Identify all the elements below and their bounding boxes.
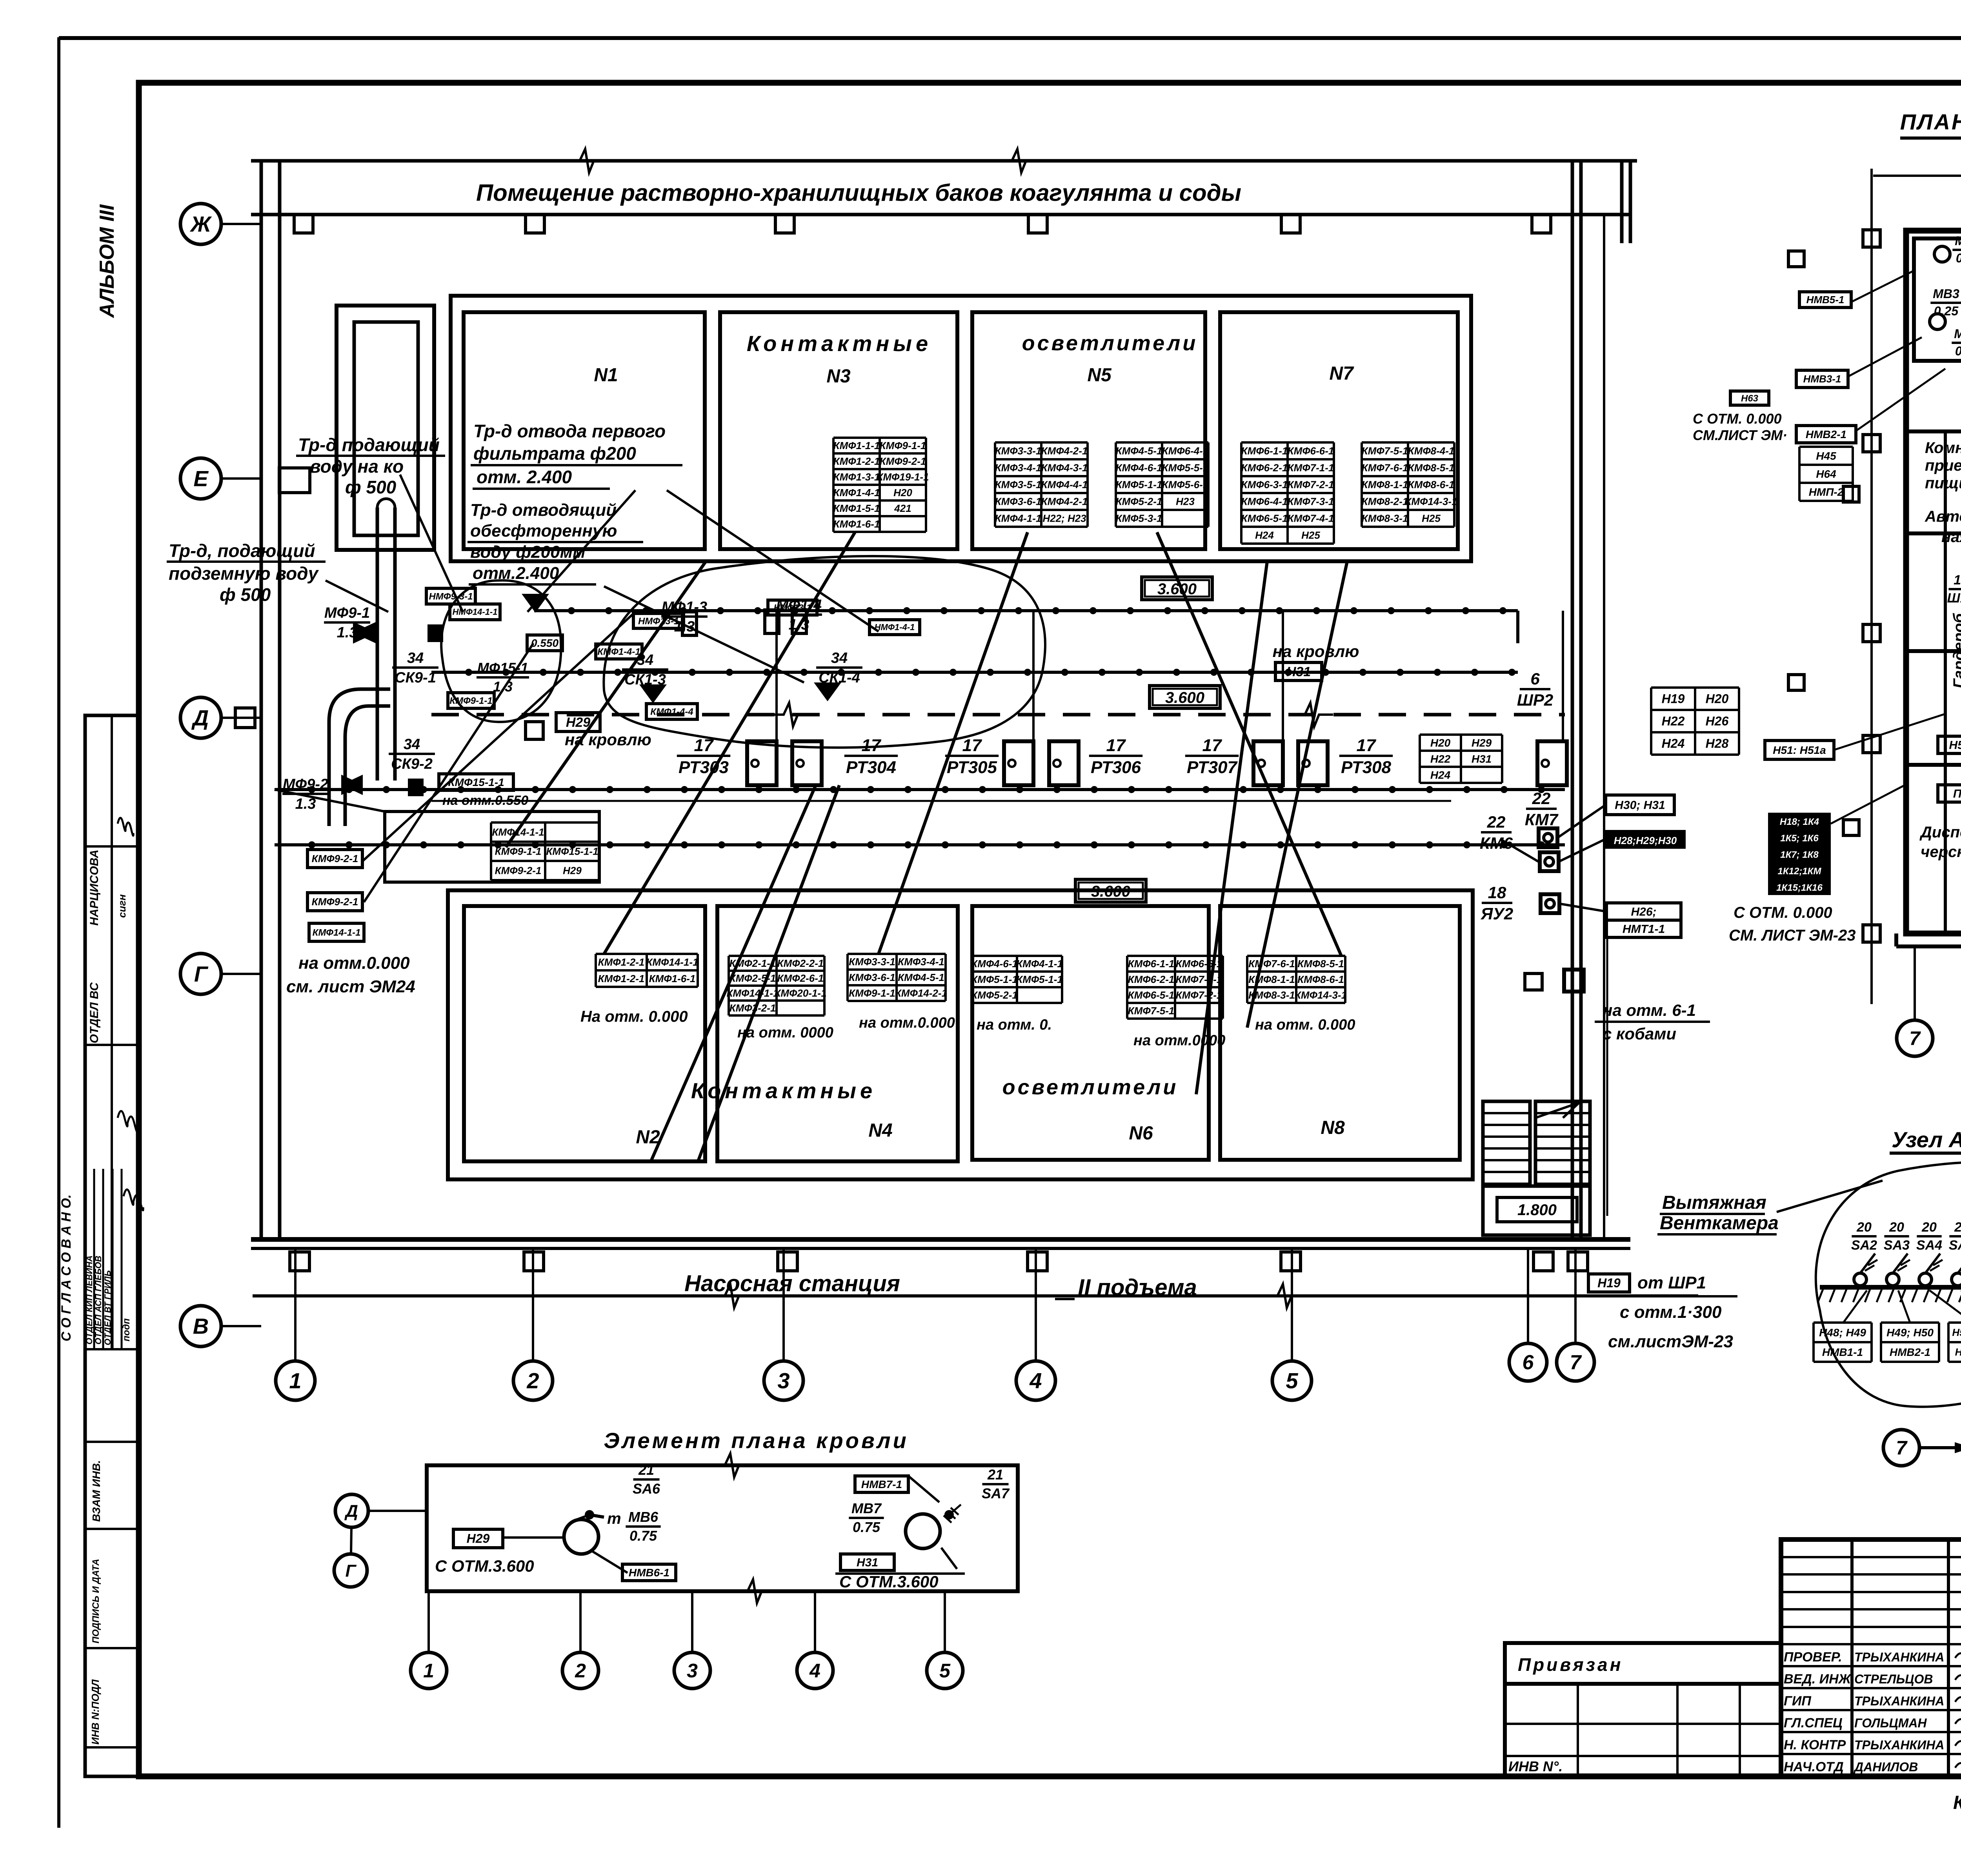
svg-text:Н18; 1К4: Н18; 1К4	[1780, 817, 1819, 827]
svg-text:7: 7	[1909, 1028, 1921, 1050]
svg-text:КМФ4-6-1: КМФ4-6-1	[1116, 462, 1162, 474]
svg-text:10: 10	[1954, 573, 1961, 588]
svg-text:N3: N3	[826, 366, 851, 387]
svg-text:КМФ4-1-1: КМФ4-1-1	[1016, 958, 1063, 970]
svg-text:6: 6	[1530, 670, 1540, 688]
svg-text:ПЛАН НА ОТМ.3.600: ПЛАН НА ОТМ.3.600	[1900, 109, 1961, 134]
svg-text:НМФ9-3-1: НМФ9-3-1	[429, 591, 473, 602]
svg-text:Контактные: Контактные	[691, 1078, 876, 1103]
svg-text:1: 1	[289, 1368, 301, 1393]
svg-text:КМФ2-6-1: КМФ2-6-1	[777, 972, 824, 984]
svg-text:Н23: Н23	[1176, 496, 1195, 508]
svg-text:3: 3	[777, 1368, 789, 1393]
svg-text:КМФ6-3-1: КМФ6-3-1	[1241, 479, 1288, 491]
svg-text:КМФ8-6-1: КМФ8-6-1	[1408, 479, 1455, 491]
svg-text:см. лист ЭМ24: см. лист ЭМ24	[286, 977, 415, 996]
svg-text:КМФ9-1-1: КМФ9-1-1	[880, 440, 926, 451]
svg-text:на отм. 0.: на отм. 0.	[977, 1017, 1052, 1033]
svg-text:КМФ4-1-1: КМФ4-1-1	[995, 513, 1042, 524]
svg-text:Копировал: Коршунова: Копировал: Коршунова	[1953, 1792, 1961, 1813]
svg-text:22: 22	[1532, 789, 1551, 808]
svg-text:Н48; Н49: Н48; Н49	[1819, 1326, 1866, 1339]
svg-text:КМФ2-2-1: КМФ2-2-1	[777, 957, 824, 969]
svg-text:ф 500: ф 500	[345, 477, 397, 497]
svg-text:СК1-3: СК1-3	[624, 671, 666, 688]
svg-text:подземную воду: подземную воду	[169, 563, 319, 584]
svg-text:SA5: SA5	[1949, 1238, 1961, 1253]
svg-text:КМФ8-3-1: КМФ8-3-1	[1362, 513, 1408, 524]
svg-text:Н53: Н53	[1949, 739, 1961, 752]
svg-text:Н64: Н64	[1816, 468, 1836, 480]
svg-text:КМФ5-1-1: КМФ5-1-1	[971, 973, 1018, 985]
svg-text:Г: Г	[345, 1561, 357, 1580]
svg-text:КМФ9-2-1: КМФ9-2-1	[495, 865, 542, 877]
svg-text:Н51: Н51а: Н51: Н51а	[1773, 744, 1826, 756]
svg-text:НАРЦИСОВА: НАРЦИСОВА	[88, 850, 101, 926]
svg-text:0.550: 0.550	[531, 637, 558, 649]
svg-text:С О Г Л А С О В А Н О.: С О Г Л А С О В А Н О.	[59, 1194, 74, 1341]
svg-text:КМФ6-2-1: КМФ6-2-1	[1128, 973, 1175, 985]
svg-text:П2: П2	[1953, 788, 1961, 801]
svg-text:МФ9-2: МФ9-2	[283, 776, 328, 793]
svg-text:Автоклав-: Автоклав-	[1925, 508, 1961, 525]
svg-text:1К15;1К16: 1К15;1К16	[1776, 883, 1823, 893]
svg-text:22: 22	[1487, 813, 1506, 831]
svg-text:КМФ4-3-1: КМФ4-3-1	[1041, 462, 1088, 474]
svg-text:7: 7	[1570, 1351, 1582, 1374]
svg-text:1К12;1КМ: 1К12;1КМ	[1778, 866, 1822, 877]
svg-text:34: 34	[831, 650, 848, 666]
svg-text:КМФ4-5-1: КМФ4-5-1	[898, 972, 944, 983]
svg-text:КМФ4-2-1: КМФ4-2-1	[1041, 496, 1088, 508]
svg-text:МВ6: МВ6	[628, 1509, 659, 1525]
svg-text:Н30; Н31: Н30; Н31	[1615, 799, 1665, 812]
svg-text:КМФ3-3-1: КМФ3-3-1	[849, 956, 895, 968]
svg-text:N8: N8	[1321, 1117, 1345, 1138]
svg-text:воду на ко: воду на ко	[310, 456, 404, 477]
svg-text:ТРЫХАНКИНА: ТРЫХАНКИНА	[1854, 1738, 1944, 1752]
svg-text:КМФ9-2-1: КМФ9-2-1	[880, 455, 926, 467]
svg-text:КМФ6-6-1: КМФ6-6-1	[1288, 445, 1334, 457]
svg-text:Н29: Н29	[563, 865, 582, 877]
svg-text:КМФ3-4-1: КМФ3-4-1	[898, 956, 944, 968]
svg-text:КМФ3-4-1: КМФ3-4-1	[995, 462, 1042, 474]
svg-text:Тр-д подающий: Тр-д подающий	[298, 435, 440, 455]
svg-text:17: 17	[1357, 736, 1377, 755]
svg-text:НМФ13-1: НМФ13-1	[638, 616, 679, 626]
svg-text:Ш10: Ш10	[1947, 591, 1961, 606]
svg-text:на отм.0.550: на отм.0.550	[442, 793, 528, 808]
svg-text:5: 5	[939, 1660, 951, 1682]
svg-text:20: 20	[1856, 1220, 1872, 1235]
svg-text:Контактные: Контактные	[747, 331, 932, 356]
svg-text:РТ303: РТ303	[679, 758, 729, 777]
svg-text:фильтрата ф200: фильтрата ф200	[473, 443, 636, 464]
svg-text:КМФ4-5-1: КМФ4-5-1	[1116, 445, 1162, 457]
svg-text:С ОТМ.3.600: С ОТМ.3.600	[839, 1572, 939, 1591]
svg-text:КМФ6-2-1: КМФ6-2-1	[1241, 462, 1288, 474]
svg-text:Н20: Н20	[893, 487, 912, 499]
svg-text:КМФ8-1-1: КМФ8-1-1	[1362, 479, 1408, 491]
svg-text:КМФ5-5-1: КМФ5-5-1	[1162, 462, 1209, 474]
svg-text:ВЕД. ИНЖ: ВЕД. ИНЖ	[1784, 1672, 1852, 1687]
svg-text:Д: Д	[344, 1501, 358, 1521]
svg-text:КМФ7-1-1: КМФ7-1-1	[1176, 973, 1222, 985]
svg-text:КМФ6-1-1: КМФ6-1-1	[1241, 445, 1288, 457]
svg-text:ИНВ N:ПОДЛ: ИНВ N:ПОДЛ	[89, 1679, 101, 1745]
svg-text:Тр-д, подающий: Тр-д, подающий	[169, 540, 315, 561]
svg-text:0.75: 0.75	[629, 1528, 657, 1544]
svg-text:осветлители: осветлители	[1002, 1075, 1179, 1099]
svg-text:Н29: Н29	[566, 715, 590, 730]
svg-text:приема: приема	[1925, 457, 1961, 474]
svg-text:34: 34	[407, 650, 424, 666]
svg-text:НМФ1-4-1: НМФ1-4-1	[875, 622, 915, 632]
svg-text:НМВ3-1: НМВ3-1	[1803, 373, 1841, 385]
svg-text:ГИП: ГИП	[1784, 1694, 1812, 1709]
svg-text:КМФ7-6-1: КМФ7-6-1	[1248, 958, 1295, 970]
svg-text:СТРЕЛЬЦОВ: СТРЕЛЬЦОВ	[1854, 1672, 1933, 1686]
svg-text:Н20: Н20	[1430, 737, 1451, 749]
svg-text:КМФ14-3-1: КМФ14-3-1	[1295, 989, 1347, 1001]
svg-text:1.3: 1.3	[337, 624, 358, 641]
svg-text:КМФ1-6-1: КМФ1-6-1	[833, 518, 880, 530]
svg-text:КМФ7-3-1: КМФ7-3-1	[1288, 496, 1334, 508]
svg-text:КМФ8-6-1: КМФ8-6-1	[1297, 973, 1344, 985]
svg-text:МФ9-1: МФ9-1	[324, 605, 370, 621]
svg-text:N1: N1	[594, 365, 618, 386]
svg-text:7: 7	[1896, 1437, 1908, 1459]
svg-text:СМ.ЛИСТ ЭМ·: СМ.ЛИСТ ЭМ·	[1693, 427, 1787, 443]
svg-text:КМФ7-4-1: КМФ7-4-1	[1288, 513, 1334, 524]
svg-text:КМФ9-2-1: КМФ9-2-1	[312, 853, 358, 864]
svg-text:С ОТМ. 0.000: С ОТМ. 0.000	[1693, 411, 1782, 427]
svg-text:МВ2: МВ2	[1954, 327, 1961, 341]
svg-text:НМВ5-1: НМВ5-1	[1806, 294, 1845, 306]
svg-text:КМФ5-3-1: КМФ5-3-1	[1116, 513, 1162, 524]
svg-text:КМФ9-1-1: КМФ9-1-1	[849, 987, 895, 999]
svg-text:КМФ1-4-1: КМФ1-4-1	[597, 646, 640, 657]
svg-text:Н22: Н22	[1430, 753, 1451, 765]
svg-text:НМФ14-1-1: НМФ14-1-1	[453, 607, 498, 617]
svg-text:КМФ7-2-1: КМФ7-2-1	[1176, 989, 1222, 1001]
svg-text:ф 500: ф 500	[220, 584, 271, 605]
svg-text:на отм. 0.000: на отм. 0.000	[1255, 1017, 1355, 1033]
svg-text:ОТДЕЛ ВС: ОТДЕЛ ВС	[88, 982, 101, 1043]
svg-text:пищи: пищи	[1925, 475, 1961, 492]
svg-text:на отм. 0000: на отм. 0000	[737, 1024, 833, 1041]
svg-text:НМВ7-1: НМВ7-1	[861, 1478, 902, 1490]
svg-text:5: 5	[1286, 1368, 1298, 1393]
svg-text:см.листЭМ-23: см.листЭМ-23	[1608, 1332, 1733, 1351]
svg-text:НМВ1-1: НМВ1-1	[1822, 1346, 1863, 1358]
svg-text:с отм.1·300: с отм.1·300	[1620, 1303, 1722, 1322]
svg-text:Тр-д отводящий: Тр-д отводящий	[470, 500, 617, 520]
svg-text:421: 421	[894, 502, 911, 514]
svg-text:СК9-1: СК9-1	[395, 670, 436, 686]
svg-text:КМФ7-2-1: КМФ7-2-1	[1288, 479, 1334, 491]
svg-text:N7: N7	[1329, 363, 1354, 384]
svg-text:Н31: Н31	[1286, 664, 1311, 679]
svg-text:Н29: Н29	[467, 1532, 490, 1546]
svg-text:обесфторенную: обесфторенную	[470, 521, 617, 540]
svg-text:Узел А: Узел А	[1892, 1127, 1961, 1152]
svg-text:Комната: Комната	[1925, 439, 1961, 457]
svg-text:РТ307: РТ307	[1187, 758, 1238, 777]
svg-text:КМФ14-1-1: КМФ14-1-1	[726, 987, 779, 999]
svg-text:Привязан: Привязан	[1518, 1654, 1623, 1675]
svg-text:подп: подп	[121, 1318, 132, 1341]
svg-text:КМФ9-1-1: КМФ9-1-1	[495, 846, 542, 857]
svg-text:Н28: Н28	[1706, 737, 1729, 751]
svg-text:21: 21	[638, 1462, 654, 1478]
svg-text:Н22: Н22	[1662, 714, 1685, 728]
svg-text:17: 17	[862, 736, 882, 755]
svg-text:ОТДЕЛ КИП ЛЕВИНА: ОТДЕЛ КИП ЛЕВИНА	[84, 1256, 94, 1345]
svg-text:КМФ4-4-1: КМФ4-4-1	[1041, 479, 1088, 491]
svg-text:КМФ1-1-1: КМФ1-1-1	[833, 440, 880, 451]
svg-text:МВ5: МВ5	[1955, 234, 1961, 248]
svg-text:SA3: SA3	[1884, 1238, 1910, 1253]
svg-text:Помещение растворно-хранилищны: Помещение растворно-хранилищных баков ко…	[476, 180, 1241, 206]
svg-text:КМФ19-1-1: КМФ19-1-1	[877, 471, 929, 483]
svg-text:SA2: SA2	[1851, 1238, 1877, 1253]
svg-text:КМФ1-4-1: КМФ1-4-1	[833, 487, 880, 499]
svg-text:РТ306: РТ306	[1091, 758, 1141, 777]
svg-text:1К7; 1К8: 1К7; 1К8	[1780, 850, 1819, 860]
svg-text:КМФ7-5-1: КМФ7-5-1	[1362, 445, 1408, 457]
svg-text:МВ7: МВ7	[851, 1500, 882, 1516]
svg-text:КМФ1-2-1: КМФ1-2-1	[598, 973, 645, 984]
svg-text:РТ308: РТ308	[1341, 758, 1391, 777]
svg-text:В: В	[193, 1314, 209, 1339]
svg-text:17: 17	[1106, 736, 1126, 755]
svg-text:КМ7: КМ7	[1525, 810, 1559, 829]
svg-text:Вытяжная: Вытяжная	[1662, 1192, 1766, 1213]
svg-text:ИНВ N°.: ИНВ N°.	[1508, 1758, 1563, 1774]
svg-text:ПРОВЕР.: ПРОВЕР.	[1784, 1650, 1842, 1665]
svg-text:КМФ6-5-1: КМФ6-5-1	[1128, 989, 1175, 1001]
svg-text:КМФ1-3-1: КМФ1-3-1	[833, 471, 880, 483]
svg-text:НМФ13-1: НМФ13-1	[774, 603, 811, 613]
svg-text:Н19: Н19	[1597, 1276, 1621, 1290]
svg-text:Н25: Н25	[1422, 513, 1441, 524]
svg-text:20: 20	[1954, 1220, 1961, 1235]
svg-text:отм.2.400: отм.2.400	[473, 564, 559, 583]
svg-text:КМФ3-5-1: КМФ3-5-1	[995, 479, 1042, 491]
svg-text:ВЗАМ ИНВ.: ВЗАМ ИНВ.	[90, 1460, 102, 1522]
svg-text:2: 2	[575, 1660, 586, 1682]
svg-text:SA7: SA7	[982, 1485, 1010, 1501]
svg-text:отм. 2.400: отм. 2.400	[477, 467, 572, 487]
svg-text:КМФ6-1-1: КМФ6-1-1	[1128, 958, 1175, 970]
svg-text:Н28;Н29;Н30: Н28;Н29;Н30	[1614, 835, 1677, 846]
svg-text:КМФ3-6-1: КМФ3-6-1	[849, 972, 895, 983]
svg-text:Г: Г	[194, 962, 209, 986]
svg-text:Ж: Ж	[189, 212, 212, 237]
svg-text:Н26: Н26	[1706, 714, 1729, 728]
svg-text:на кровлю: на кровлю	[1273, 642, 1359, 661]
svg-text:Н63: Н63	[1741, 393, 1759, 404]
svg-text:Венткамера: Венткамера	[1660, 1213, 1779, 1234]
svg-text:N6: N6	[1129, 1123, 1153, 1144]
svg-text:Н31: Н31	[1472, 753, 1492, 765]
svg-text:18: 18	[1488, 883, 1506, 902]
svg-text:КМФ15-1-1: КМФ15-1-1	[448, 776, 504, 788]
svg-text:Диспет-: Диспет-	[1919, 824, 1961, 841]
svg-text:N2: N2	[636, 1127, 660, 1148]
svg-text:0.25: 0.25	[1955, 344, 1961, 358]
svg-text:ная: ная	[1941, 528, 1961, 546]
svg-text:на отм.0.000: на отм.0.000	[859, 1015, 955, 1031]
svg-text:SA6: SA6	[633, 1481, 660, 1497]
svg-text:Н22; Н23: Н22; Н23	[1042, 513, 1086, 524]
svg-text:осветлители: осветлители	[1022, 331, 1198, 355]
svg-text:6: 6	[1523, 1351, 1534, 1374]
svg-text:КМФ20-1-1: КМФ20-1-1	[774, 987, 826, 999]
svg-text:КМФ14-3-1: КМФ14-3-1	[1405, 496, 1457, 508]
svg-text:m: m	[607, 1510, 621, 1527]
svg-text:Е: Е	[193, 466, 209, 491]
svg-text:20: 20	[1889, 1220, 1904, 1235]
svg-text:СК9-2: СК9-2	[391, 756, 433, 772]
svg-text:Н26;: Н26;	[1631, 906, 1656, 919]
svg-text:3.600: 3.600	[1165, 689, 1204, 706]
svg-text:НМВ2-1: НМВ2-1	[1806, 428, 1846, 440]
svg-text:РТ304: РТ304	[846, 758, 896, 777]
svg-text:17: 17	[1202, 736, 1222, 755]
svg-text:17: 17	[962, 736, 982, 755]
svg-text:Н24: Н24	[1662, 737, 1685, 751]
svg-text:КМФ4-2-1: КМФ4-2-1	[1041, 445, 1088, 457]
svg-text:Н. КОНТР: Н. КОНТР	[1784, 1738, 1846, 1752]
svg-text:1: 1	[423, 1660, 434, 1682]
svg-text:КМФ1-2-1: КМФ1-2-1	[833, 455, 880, 467]
svg-text:20: 20	[1921, 1220, 1937, 1235]
svg-text:Н45: Н45	[1816, 450, 1836, 462]
svg-text:НМВ3-1: НМВ3-1	[1955, 1346, 1961, 1358]
svg-text:Гардероб: Гардероб	[1950, 613, 1961, 688]
svg-text:ТРЫХАНКИНА: ТРЫХАНКИНА	[1854, 1650, 1944, 1664]
svg-text:Н50; Н51: Н50; Н51	[1952, 1326, 1961, 1338]
svg-text:ШР2: ШР2	[1517, 691, 1554, 709]
svg-text:Н20: Н20	[1706, 692, 1729, 706]
svg-text:Д: Д	[191, 706, 209, 730]
svg-text:3.600: 3.600	[1157, 580, 1197, 598]
svg-text:МВ3: МВ3	[1933, 287, 1959, 301]
svg-text:Н49; Н50: Н49; Н50	[1886, 1326, 1934, 1339]
svg-text:РТ305: РТ305	[947, 758, 997, 777]
svg-text:2: 2	[526, 1368, 539, 1393]
svg-text:НМТ1-1: НМТ1-1	[1623, 923, 1665, 936]
svg-text:НАЧ.ОТД: НАЧ.ОТД	[1784, 1760, 1844, 1774]
svg-text:НМВ6-1: НМВ6-1	[629, 1567, 669, 1579]
svg-text:N4: N4	[868, 1120, 892, 1141]
svg-text:КМФ1-5-1: КМФ1-5-1	[833, 502, 880, 514]
svg-text:КМФ6-4-1: КМФ6-4-1	[1241, 496, 1288, 508]
svg-text:ОТДЕЛ АСП ГЛЕБОВ: ОТДЕЛ АСП ГЛЕБОВ	[93, 1256, 103, 1345]
svg-text:ТРЫХАНКИНА: ТРЫХАНКИНА	[1854, 1694, 1944, 1708]
svg-text:С ОТМ. 0.000: С ОТМ. 0.000	[1734, 904, 1832, 921]
svg-text:КМФ8-4-1: КМФ8-4-1	[1408, 445, 1455, 457]
svg-text:КМФ5-1-1: КМФ5-1-1	[1116, 479, 1162, 491]
svg-text:3: 3	[687, 1660, 698, 1682]
svg-text:Н24: Н24	[1430, 769, 1451, 781]
svg-text:ГОЛЬЦМАН: ГОЛЬЦМАН	[1854, 1716, 1927, 1730]
svg-text:КМФ5-2-1: КМФ5-2-1	[1116, 496, 1162, 508]
svg-text:КМФ3-6-1: КМФ3-6-1	[995, 496, 1042, 508]
svg-text:КМФ4-6-1: КМФ4-6-1	[971, 958, 1018, 970]
svg-text:АЛЬБОМ III: АЛЬБОМ III	[96, 204, 118, 318]
svg-text:С ОТМ.3.600: С ОТМ.3.600	[435, 1557, 534, 1575]
svg-text:Н19: Н19	[1662, 692, 1685, 706]
svg-text:с кобами: с кобами	[1603, 1024, 1676, 1043]
svg-text:от ШР1: от ШР1	[1637, 1273, 1706, 1292]
svg-text:КМФ6-4-1: КМФ6-4-1	[1162, 445, 1209, 457]
svg-text:НМВ2-1: НМВ2-1	[1890, 1346, 1930, 1358]
svg-text:ДАНИЛОВ: ДАНИЛОВ	[1853, 1760, 1918, 1774]
svg-text:0.25: 0.25	[1934, 304, 1959, 318]
svg-text:КМФ8-5-1: КМФ8-5-1	[1408, 462, 1455, 474]
svg-text:SA4: SA4	[1916, 1238, 1942, 1253]
svg-text:СК1-4: СК1-4	[819, 670, 860, 686]
svg-text:КМФ1-2-1: КМФ1-2-1	[598, 956, 645, 968]
svg-text:сигн: сигн	[116, 894, 128, 918]
svg-text:КМФ5-2-1: КМФ5-2-1	[971, 989, 1018, 1001]
svg-text:на отм.0000: на отм.0000	[1133, 1032, 1225, 1049]
svg-text:на отм.0.000: на отм.0.000	[298, 953, 410, 973]
svg-text:КМФ14-1-1: КМФ14-1-1	[313, 927, 361, 938]
svg-text:КМФ5-6-1: КМФ5-6-1	[1162, 479, 1209, 491]
svg-text:4: 4	[1029, 1368, 1042, 1393]
svg-text:КМФ15-1-1: КМФ15-1-1	[546, 846, 598, 857]
svg-text:КМФ8-2-1: КМФ8-2-1	[1362, 496, 1408, 508]
svg-text:Н31: Н31	[857, 1556, 878, 1569]
svg-text:Н25: Н25	[1301, 530, 1320, 541]
svg-text:ПОДПИСЬ И ДАТА: ПОДПИСЬ И ДАТА	[91, 1559, 101, 1643]
svg-text:КМФ14-1-1: КМФ14-1-1	[646, 956, 698, 968]
svg-text:Насосная станция: Насосная станция	[684, 1271, 900, 1296]
svg-text:ОТДЕЛ ВТ ГРИЛЬ: ОТДЕЛ ВТ ГРИЛЬ	[103, 1270, 113, 1345]
svg-text:КМФ8-5-1: КМФ8-5-1	[1297, 958, 1344, 970]
svg-text:КМФ9-2-1: КМФ9-2-1	[312, 896, 358, 908]
svg-text:1.800: 1.800	[1517, 1201, 1557, 1219]
svg-text:КМФ7-5-1: КМФ7-5-1	[1128, 1005, 1175, 1017]
svg-text:черская: черская	[1921, 843, 1961, 861]
svg-text:СМ. ЛИСТ ЭМ-23: СМ. ЛИСТ ЭМ-23	[1729, 927, 1855, 944]
svg-text:N5: N5	[1087, 365, 1112, 386]
svg-text:1К5; 1К6: 1К5; 1К6	[1780, 833, 1819, 844]
svg-text:НМП-2: НМП-2	[1809, 486, 1844, 498]
svg-text:КМФ3-3-1: КМФ3-3-1	[995, 445, 1042, 457]
svg-text:на отм. 6-1: на отм. 6-1	[1603, 1001, 1696, 1019]
svg-text:ЯУ2: ЯУ2	[1481, 904, 1513, 923]
svg-text:II подъема: II подъема	[1078, 1275, 1197, 1300]
svg-text:4: 4	[809, 1660, 820, 1682]
svg-text:КМФ7-1-1: КМФ7-1-1	[1288, 462, 1334, 474]
svg-text:Тр-д отвода первого: Тр-д отвода первого	[473, 421, 666, 441]
svg-text:21: 21	[987, 1467, 1003, 1483]
svg-text:КМФ5-1-1: КМФ5-1-1	[1016, 973, 1063, 985]
svg-text:ГЛ.СПЕЦ: ГЛ.СПЕЦ	[1784, 1716, 1843, 1730]
svg-text:Элемент плана кровли: Элемент плана кровли	[604, 1428, 909, 1453]
svg-text:КМФ1-4-4: КМФ1-4-4	[650, 706, 693, 717]
svg-text:воду ф200мм: воду ф200мм	[470, 542, 586, 562]
svg-text:0.75: 0.75	[853, 1519, 880, 1535]
svg-text:КМФ6-5-1: КМФ6-5-1	[1241, 513, 1288, 524]
svg-text:Н24: Н24	[1255, 530, 1274, 541]
svg-text:0.25: 0.25	[1956, 251, 1961, 265]
